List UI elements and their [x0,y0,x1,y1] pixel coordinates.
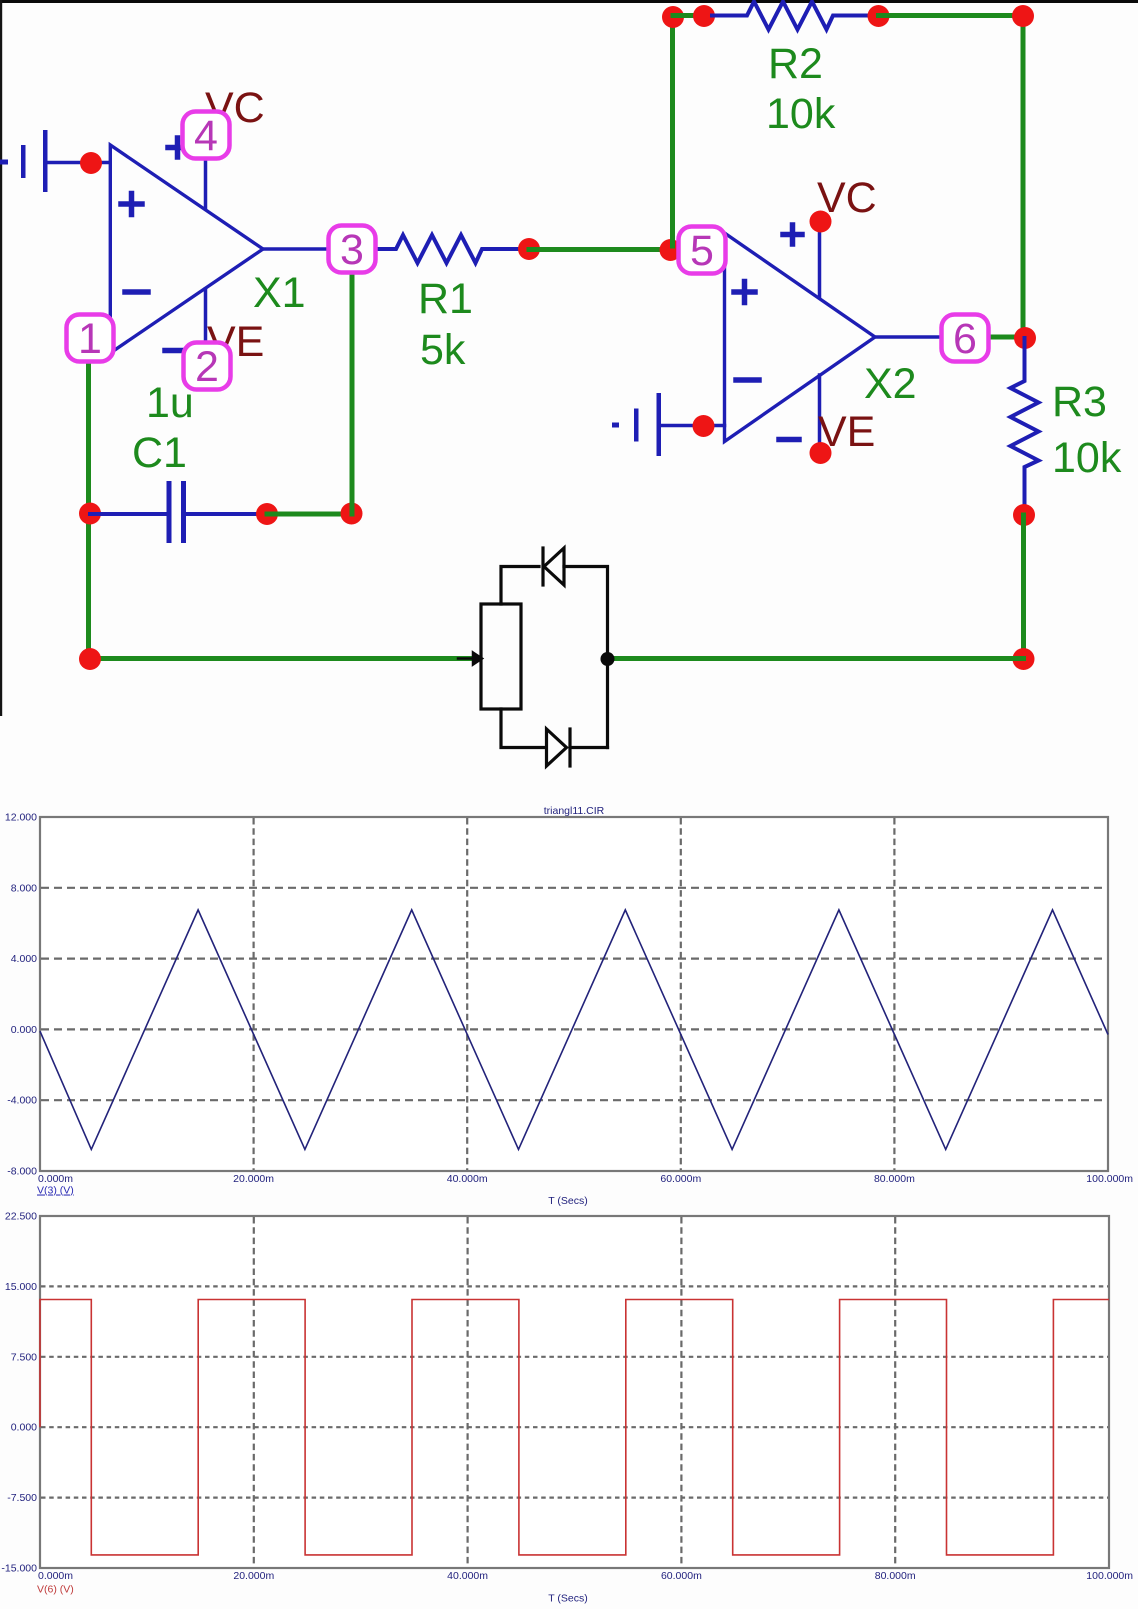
op-amp X1 label [253,269,306,317]
junction dot C1 right [256,503,278,525]
svg-text:X2: X2 [864,360,917,408]
node 3 [329,226,376,275]
X2 VE pin wire [779,375,820,452]
svg-text:5k: 5k [420,326,466,374]
svg-text:T (Secs): T (Secs) [548,1195,587,1207]
svg-text:100.000m: 100.000m [1086,1173,1133,1185]
capacitor C1 [90,481,267,543]
junction dot R1 right [518,238,540,260]
svg-text:VC: VC [817,174,877,222]
R1 value labels [418,275,473,374]
junction dot node6 right [1014,327,1036,349]
junction dot bottom right corner [1013,648,1035,670]
chart1 trace V(3) [40,910,1108,1150]
R3 value labels [1052,378,1122,482]
chart1 x axis labels [38,1173,1133,1185]
wire bottom rail right [610,656,1024,661]
svg-text:0.000m: 0.000m [38,1173,73,1185]
wire R2 to top right corner [879,16,1024,339]
svg-text:VE: VE [818,408,875,456]
X1 VC pin wire [168,136,206,208]
chart2 x axis labels [38,1570,1133,1582]
op-amp X1 [110,145,263,353]
svg-text:2: 2 [195,343,219,391]
junction dot X2 battery wire [693,415,715,437]
wire R1 to node 5 [529,247,678,252]
input arrow into box [458,653,482,665]
VE label X2 [818,408,875,456]
wire node1 battery to X1 +input [45,161,110,165]
wire box bottom to diode D2 [501,709,546,748]
svg-text:40.000m: 40.000m [447,1570,488,1582]
X2 VC pin wire [783,222,820,297]
resistor box RN (nonlinear block) [481,604,521,709]
chart2 y axis labels [1,1211,37,1575]
chart2 horizontal gridlines [41,1286,1108,1497]
svg-text:T (Secs): T (Secs) [548,1593,587,1605]
svg-text:80.000m: 80.000m [874,1173,915,1185]
node 4 [183,112,230,161]
chart1 plot border [40,817,1108,1171]
CHART 1 : V(3) triangle wave [5,805,1133,1207]
svg-text:80.000m: 80.000m [875,1570,916,1582]
node 2 [184,343,231,392]
junction dot X1 +input [80,152,102,174]
svg-text:R1: R1 [418,275,473,323]
chart1 vertical gridlines [254,818,895,1170]
resistor R1 [375,235,529,263]
junction dot C1 left [79,503,101,525]
svg-text:60.000m: 60.000m [661,1570,702,1582]
node 6 [942,315,989,364]
svg-text:4: 4 [194,112,218,160]
svg-text:12.000: 12.000 [5,812,37,824]
diode D2 (bottom, pointing right) [547,729,608,766]
svg-text:-8.000: -8.000 [7,1166,37,1178]
resistor R2 [712,2,878,30]
diode D1 (top, pointing left) [543,548,564,585]
svg-text:5: 5 [690,227,714,275]
svg-text:V(6) (V): V(6) (V) [37,1584,74,1596]
svg-text:20.000m: 20.000m [233,1570,274,1582]
junction dot R2 row left [662,6,684,28]
svg-text:0.000: 0.000 [11,1422,37,1434]
svg-text:X1: X1 [253,269,306,317]
wire node 6 to R3 [986,335,1023,340]
chart2 plot border [40,1216,1109,1568]
svg-text:8.000: 8.000 [11,882,37,894]
wire node5 column up to R2 [670,17,675,246]
junction dot left of node 5 [660,239,682,261]
svg-text:C1: C1 [132,429,187,477]
node 5 [679,227,726,276]
junction dot R2 left [693,5,715,27]
junction dot node3 column bottom [341,503,363,525]
op-amp X2 [725,233,876,442]
wire node1 column down [86,359,91,659]
node 1 [67,315,114,364]
svg-text:60.000m: 60.000m [660,1173,701,1185]
chart2 vertical gridlines [254,1217,895,1567]
op-amp X2 label [864,360,917,408]
wire X2 output to node 6 [875,335,944,339]
R2 value labels [766,40,836,138]
wire bottom rail left [90,656,477,661]
svg-text:3: 3 [340,226,364,274]
battery V1 (left) [0,130,48,192]
svg-text:0.000m: 0.000m [38,1570,73,1582]
svg-text:100.000m: 100.000m [1086,1570,1133,1582]
X2 VE power dot [810,442,832,464]
CHART 2 : V(6) square wave [1,1211,1133,1605]
svg-text:R3: R3 [1052,378,1107,426]
VC label X1 [205,84,265,132]
VE label X1 [207,318,264,366]
wire between top dots [673,13,704,18]
VC label X2 [817,174,877,222]
svg-text:-4.000: -4.000 [7,1095,37,1107]
svg-text:1: 1 [78,315,102,363]
svg-text:triangl11.CIR: triangl11.CIR [544,805,605,817]
svg-text:22.500: 22.500 [5,1211,37,1223]
junction dot diode output [601,652,615,666]
junction dot bottom left corner [79,648,101,670]
svg-text:10k: 10k [766,90,836,138]
svg-text:10k: 10k [1052,434,1122,482]
svg-text:0.000: 0.000 [11,1024,37,1036]
svg-text:-15.000: -15.000 [1,1563,37,1575]
junction dot R2 right [868,5,890,27]
C1 value labels [132,379,194,477]
svg-text:V(3) (V): V(3) (V) [37,1185,74,1197]
svg-text:15.000: 15.000 [5,1281,37,1293]
svg-text:7.500: 7.500 [11,1351,37,1363]
wire X1 output to node 3 [263,247,331,251]
junction dot top right corner [1012,5,1034,27]
svg-text:R2: R2 [768,40,823,88]
wire D1 to right column [564,567,608,748]
chart2 trace V(6) [40,1300,1109,1555]
chart1 horizontal gridlines [41,888,1107,1100]
X2 VC power dot [810,211,832,233]
svg-text:-7.500: -7.500 [7,1492,37,1504]
wire node3 column down [350,270,355,514]
chart1 y axis labels [5,812,37,1178]
svg-text:4.000: 4.000 [11,953,37,965]
resistor R3 [1011,338,1039,515]
svg-text:6: 6 [953,315,977,363]
wire C1 to node3 column [267,512,352,517]
wire R3 to bottom rail [1021,515,1026,659]
wire box top to diode D1 [501,567,539,605]
battery V2 (X2 minus input) [612,393,725,456]
svg-text:20.000m: 20.000m [233,1173,274,1185]
svg-text:40.000m: 40.000m [447,1173,488,1185]
X1 VE pin wire [165,289,206,364]
junction dot R3 bottom [1013,504,1035,526]
